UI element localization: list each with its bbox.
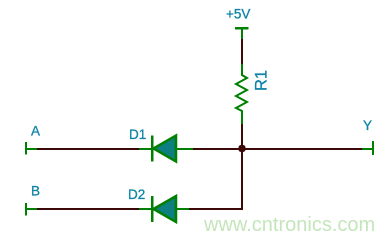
svg-text:+5V: +5V xyxy=(226,7,250,22)
svg-text:R1: R1 xyxy=(253,70,271,91)
svg-text:Y: Y xyxy=(363,118,372,133)
svg-text:B: B xyxy=(31,183,40,198)
svg-text:D2: D2 xyxy=(128,187,145,202)
svg-text:A: A xyxy=(31,123,40,138)
svg-text:www.cntronics.com: www.cntronics.com xyxy=(203,214,375,236)
svg-text:D1: D1 xyxy=(129,127,146,142)
